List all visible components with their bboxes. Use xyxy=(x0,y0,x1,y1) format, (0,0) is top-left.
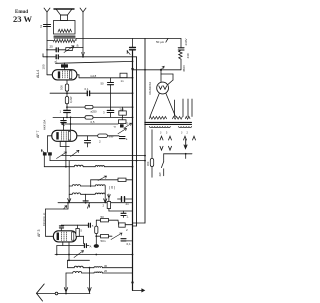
svg-text:4W: 4W xyxy=(158,172,162,177)
svg-text:A: A xyxy=(90,244,92,248)
svg-text:230V: 230V xyxy=(184,38,188,45)
svg-text:AF 3: AF 3 xyxy=(37,230,41,237)
svg-text:500: 500 xyxy=(60,85,64,90)
svg-text:25: 25 xyxy=(50,45,54,49)
svg-text:450V: 450V xyxy=(182,65,186,72)
svg-text:50: 50 xyxy=(94,110,98,114)
svg-text:2W: 2W xyxy=(120,107,125,111)
svg-text:20: 20 xyxy=(104,269,108,273)
svg-text:1911(Im.L): 1911(Im.L) xyxy=(42,213,46,226)
svg-text:23 W: 23 W xyxy=(13,14,32,24)
svg-text:1n: 1n xyxy=(121,79,125,83)
svg-text:-a: -a xyxy=(113,125,116,129)
svg-text:mW: mW xyxy=(109,134,114,138)
svg-text:50: 50 xyxy=(101,82,105,86)
svg-text:450: 450 xyxy=(146,161,150,166)
svg-text:0,1: 0,1 xyxy=(85,87,89,91)
svg-text:AF 7: AF 7 xyxy=(36,131,40,138)
svg-text:( 6 ): ( 6 ) xyxy=(109,186,115,190)
svg-text:0,5: 0,5 xyxy=(91,120,95,124)
svg-text:1.: 1. xyxy=(127,215,130,219)
svg-text:0,1: 0,1 xyxy=(127,242,132,246)
svg-text:AK415A: AK415A xyxy=(43,120,47,130)
svg-text:30: 30 xyxy=(104,264,108,268)
svg-text:2n: 2n xyxy=(126,202,130,206)
svg-text:a: a xyxy=(77,44,79,48)
svg-text:100: 100 xyxy=(42,64,46,69)
svg-text:440: 440 xyxy=(186,53,190,58)
svg-text:50: 50 xyxy=(101,215,105,219)
svg-text:ALL4: ALL4 xyxy=(36,70,40,78)
svg-text:50n: 50n xyxy=(101,239,106,243)
svg-text:0,2W: 0,2W xyxy=(69,96,73,103)
svg-text:50 µA: 50 µA xyxy=(156,40,164,44)
svg-text:m4,8: m4,8 xyxy=(90,74,97,78)
svg-text:RGN1064: RGN1064 xyxy=(148,82,152,95)
